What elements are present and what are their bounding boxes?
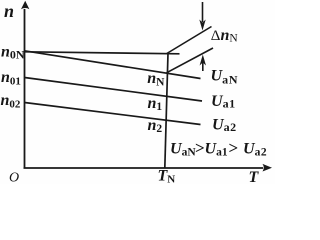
y-axis <box>21 1 29 169</box>
svg-text:O: O <box>9 171 19 185</box>
upper gap edge line <box>167 27 212 54</box>
svg-text:T: T <box>249 169 260 184</box>
down arrow of gap <box>199 2 205 31</box>
up arrow of gap <box>200 55 206 72</box>
x-axis <box>24 164 273 172</box>
svg-text:Ua1: Ua1 <box>211 93 236 111</box>
curve n_1 for U_a1 <box>25 78 203 102</box>
curve n_N for U_aN <box>25 51 201 79</box>
svg-text:Ua2: Ua2 <box>212 116 237 134</box>
n_0N horizontal level line <box>25 52 180 54</box>
T_N vertical line <box>165 53 168 169</box>
lower gap edge line <box>167 48 214 73</box>
svg-text:n: n <box>4 1 14 21</box>
curve n_2 for U_a2 <box>25 103 201 125</box>
